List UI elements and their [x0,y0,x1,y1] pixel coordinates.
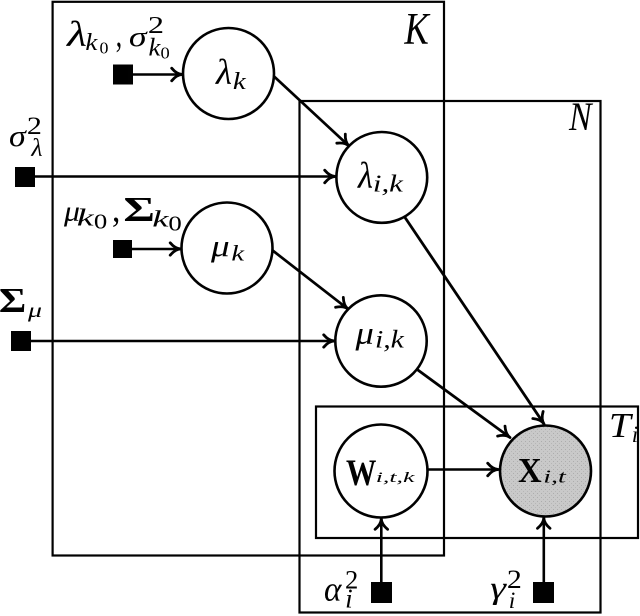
svg-text:k: k [85,28,98,55]
svg-text:0: 0 [100,38,109,58]
svg-text:i,k: i,k [375,325,405,353]
svg-text:0: 0 [94,211,107,234]
svg-text:0: 0 [168,213,181,236]
svg-text:σ: σ [129,21,148,52]
svg-text:,: , [116,14,122,56]
svg-text:W: W [346,453,376,494]
svg-text:μ: μ [354,317,373,351]
svg-text:λ: λ [357,155,373,196]
svg-text:k: k [77,203,95,231]
svg-text:k: k [233,67,247,94]
svg-text:μ: μ [210,230,230,263]
svg-text:k: k [231,240,244,265]
svg-text:γ: γ [490,570,508,605]
svg-text:λ: λ [215,53,232,92]
svg-text:α: α [324,570,342,609]
svg-text:i,t,k: i,t,k [376,468,415,485]
svg-text:i: i [632,422,638,447]
svg-text:σ: σ [9,119,27,153]
svg-text:,: , [112,188,120,230]
svg-text:μ: μ [27,299,42,322]
svg-text:X: X [518,452,542,490]
svg-text:i: i [509,588,516,614]
svg-text:λ: λ [30,133,42,162]
svg-text:K: K [404,3,432,54]
svg-text:i: i [345,584,353,614]
svg-text:i,k: i,k [373,170,404,197]
svg-text:k: k [148,33,160,61]
svg-text:λ: λ [66,14,87,54]
svg-text:0: 0 [161,43,170,62]
svg-text:i,t: i,t [543,467,566,486]
svg-text:T: T [609,407,633,445]
svg-text:N: N [568,94,594,138]
svg-text:Σ: Σ [0,281,26,320]
svg-text:Σ: Σ [123,191,155,229]
